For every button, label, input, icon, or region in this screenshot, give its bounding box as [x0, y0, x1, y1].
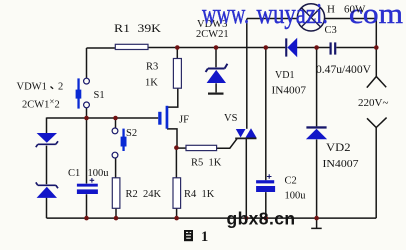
capacitor C1 — [77, 178, 98, 194]
svg-text:C1: C1 — [68, 168, 80, 179]
svg-text:2CW21: 2CW21 — [196, 29, 229, 40]
svg-text:C2: C2 — [285, 176, 297, 187]
svg-text:C3: C3 — [325, 25, 337, 36]
svg-text:H: H — [327, 3, 335, 15]
diode VD2 — [306, 126, 327, 139]
wire zener column to bottom rail — [46, 198, 48, 219]
wire VS cathode to bottom rail — [245, 139, 247, 218]
transistor JF gate bar — [158, 112, 161, 125]
svg-text:R1: R1 — [114, 23, 130, 35]
svg-text:R3: R3 — [146, 62, 158, 73]
wire top rail right of lamp — [325, 18, 377, 20]
svg-text:www.: www. — [202, 0, 249, 30]
wire JF source lead — [167, 129, 177, 148]
wire C1 branch upper — [86, 118, 88, 184]
resistor R2 — [112, 178, 120, 209]
wire AC upper terminal fork — [367, 77, 386, 88]
wire VD2 to bottom rail — [316, 139, 318, 218]
capacitor C2 — [256, 174, 275, 192]
lamp H circle with X — [297, 4, 324, 31]
wire AC lower terminal fork — [367, 118, 387, 128]
wire VS anode column — [246, 19, 248, 129]
resistor R1 — [115, 44, 148, 49]
svg-text:VDW1: VDW1 — [17, 81, 47, 92]
svg-text:IN4007: IN4007 — [272, 84, 307, 96]
wire S1 riser — [86, 48, 88, 78]
svg-text:220V~: 220V~ — [358, 97, 388, 109]
svg-text:VD1: VD1 — [275, 69, 295, 81]
junction node VD2 top — [314, 45, 319, 50]
zener VDW1 upper left — [36, 133, 58, 147]
svg-text:R2 24K: R2 24K — [126, 189, 162, 200]
wire main bus R1 to VD1 — [148, 47, 285, 49]
label figure 1 caption — [184, 230, 193, 241]
diode VD1 — [285, 38, 297, 57]
svg-text:0.47u/400V: 0.47u/400V — [316, 62, 371, 76]
svg-text:39K: 39K — [138, 23, 162, 35]
wire AC lower rail to bottom — [375, 128, 377, 219]
wire R4 column upper — [175, 148, 177, 178]
wire between zeners — [46, 146, 48, 185]
junction node S2 top — [113, 116, 118, 121]
svg-text:R4 1K: R4 1K — [184, 189, 215, 200]
transistor JF channel bar — [166, 106, 169, 129]
svg-text:S1: S1 — [94, 90, 105, 101]
wire C1 branch lower — [86, 194, 88, 218]
junction node C2 top — [264, 45, 269, 50]
wire bottom rail — [47, 217, 377, 219]
svg-text:JF: JF — [179, 114, 189, 125]
junction node VDW3 top — [214, 45, 219, 50]
wire R5 to VS gate — [217, 139, 238, 149]
svg-text:S2: S2 — [126, 128, 137, 139]
capacitor C3 — [330, 42, 337, 54]
wire gate bus y=118 — [47, 117, 159, 119]
wire R2 to bottom rail — [115, 208, 117, 218]
junction node JF source — [174, 145, 179, 150]
junction node R4 bottom — [174, 216, 179, 221]
svg-text:2: 2 — [58, 81, 63, 92]
svg-text:IN4007: IN4007 — [323, 158, 360, 170]
wire R4 to bottom rail — [176, 208, 178, 218]
wire R3 bottom to JF drain — [167, 88, 178, 107]
junction node C1 bottom — [84, 216, 89, 221]
switch S2 — [112, 128, 126, 158]
junction node C2 bottom — [264, 216, 269, 221]
svg-text:1: 1 — [201, 229, 208, 245]
junction node R3 top — [175, 45, 180, 50]
resistor R5 — [186, 145, 217, 150]
junction node VS bottom — [244, 216, 248, 220]
watermark www.wuyazi.com — [202, 0, 403, 30]
wire S2 to R2 — [115, 158, 117, 178]
svg-text:100u: 100u — [88, 168, 110, 179]
wire main bus y=47.5 segment S1 to R1 — [87, 47, 116, 49]
wire C2 branch lower — [265, 192, 267, 218]
junction node R2 bottom — [114, 216, 119, 221]
wire S2 stub from gate bus — [115, 118, 117, 128]
wire VD2 column upper — [316, 48, 318, 127]
wire C2 branch upper — [265, 48, 267, 181]
label VDW1,2 — [17, 81, 64, 92]
junction node S1 bottom — [84, 116, 89, 121]
wire left zener column top — [46, 118, 48, 134]
wire top rail left of lamp — [247, 18, 298, 20]
wire right rail upper — [375, 18, 377, 77]
wire VDW3 stub — [215, 48, 217, 93]
zener VDW3 — [206, 64, 228, 95]
svg-text:R5 1K: R5 1K — [191, 157, 222, 168]
resistor R4 — [173, 178, 181, 209]
zener VDW2 lower left — [36, 182, 58, 198]
svg-text:wuyazi.: wuyazi. — [257, 0, 329, 30]
junction node VD2 bottom — [314, 216, 319, 221]
svg-text:gbx8.cn: gbx8.cn — [227, 208, 296, 228]
thyristor VS triac — [235, 128, 256, 138]
wire VD2 terminal stub below rail — [311, 218, 322, 228]
wire R3 top stub — [176, 48, 178, 59]
junction node right rail — [374, 45, 379, 50]
svg-text:60W: 60W — [344, 3, 366, 15]
resistor R3 — [173, 59, 181, 89]
wire main bus C3 to right rail — [336, 47, 376, 49]
switch S1 — [76, 78, 90, 108]
wire main bus VD1 to C3 — [297, 47, 330, 49]
wire S1 to gate bus — [86, 108, 88, 118]
svg-text:VS: VS — [224, 113, 238, 124]
wire junction to R5 — [176, 147, 186, 149]
svg-text:VD2: VD2 — [326, 142, 351, 154]
svg-text:1K: 1K — [145, 78, 158, 89]
svg-text:100u: 100u — [285, 190, 307, 201]
svg-text:2CW1×2: 2CW1×2 — [22, 97, 60, 111]
